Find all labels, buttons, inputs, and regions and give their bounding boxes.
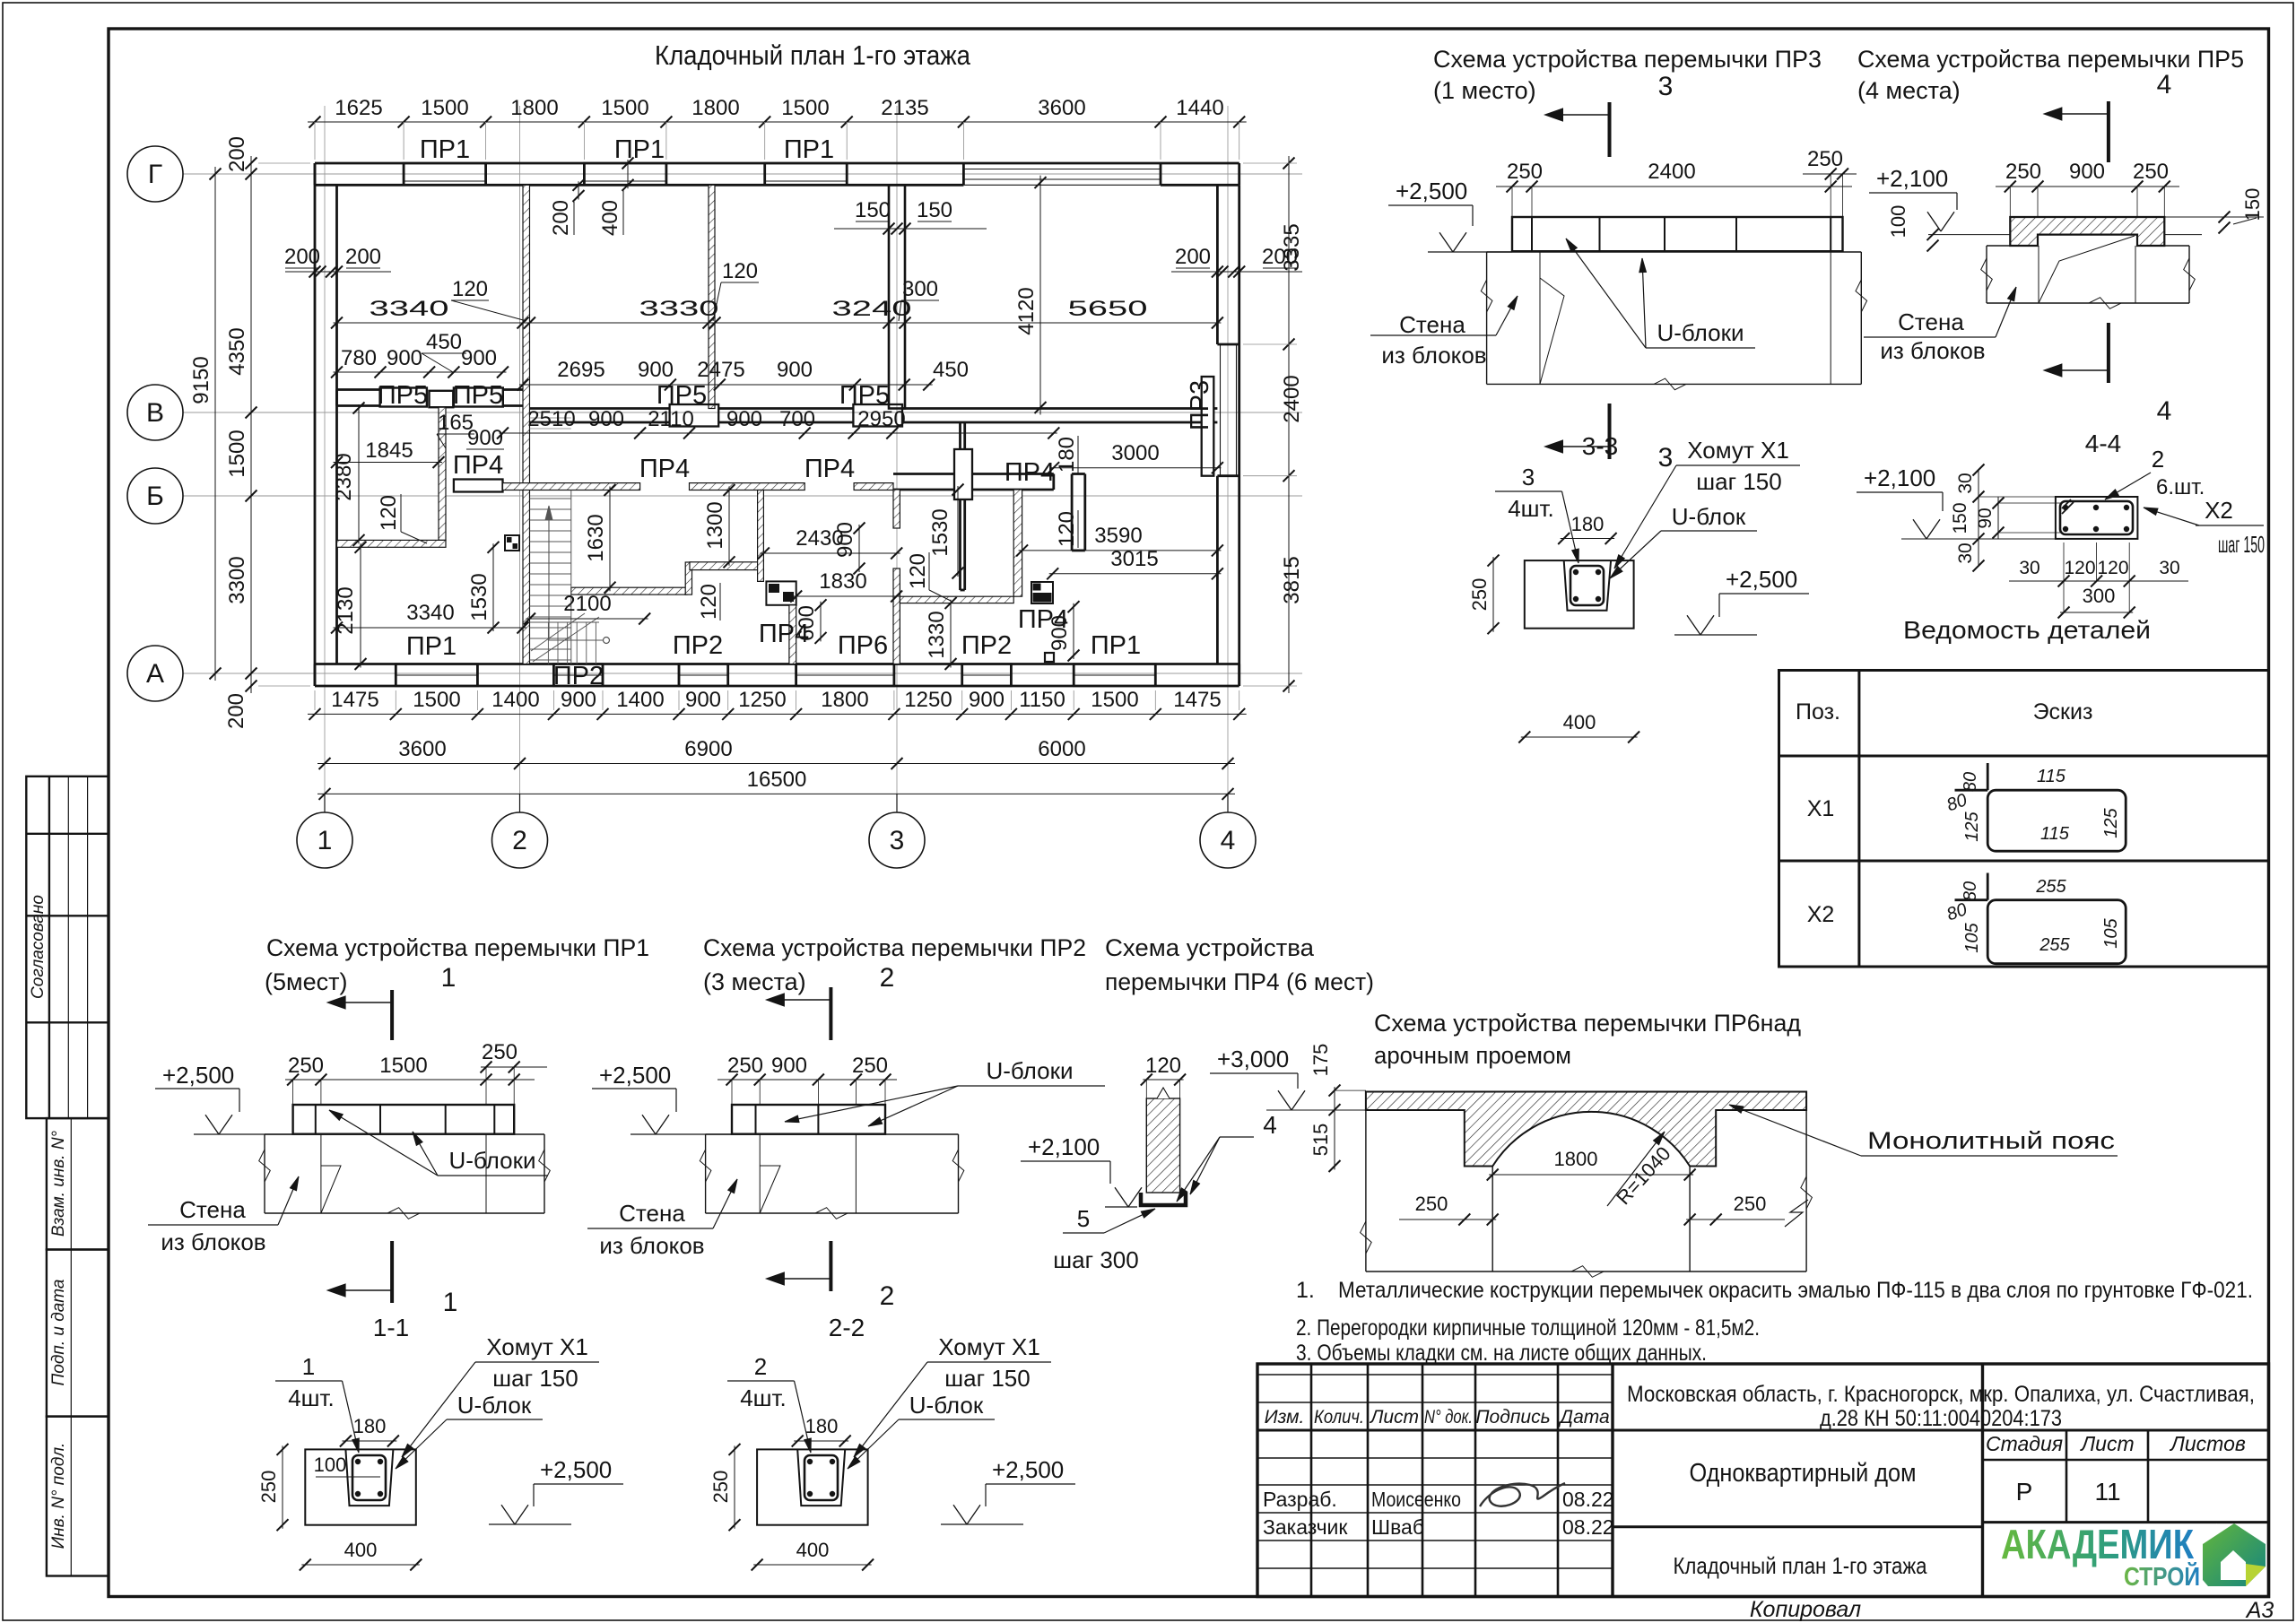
axis circle А (127, 646, 183, 701)
section marker 3 bottom (1545, 404, 1674, 473)
PR1 lintel beam (293, 1105, 515, 1134)
svg-text:Кладочный план 1-го этажа: Кладочный план 1-го этажа (1674, 1552, 1927, 1579)
dim 1830 (790, 569, 902, 603)
partition V5 kitchen right (893, 490, 900, 664)
svg-text:2: 2 (754, 1353, 767, 1380)
svg-text:1150: 1150 (1019, 688, 1065, 712)
V wall right dim chain (517, 358, 970, 391)
svg-text:900: 900 (969, 688, 1004, 712)
svg-text:2110: 2110 (648, 407, 694, 431)
svg-text:ПР5: ПР5 (453, 381, 503, 410)
svg-text:ПР5: ПР5 (378, 381, 428, 410)
svg-text:250: 250 (709, 1471, 732, 1504)
left dim chain total (189, 167, 222, 681)
svg-text:1: 1 (317, 826, 333, 855)
dim 1845 bath (331, 438, 445, 468)
lintel PR5 V-wall 2 (454, 388, 503, 407)
svg-text:100: 100 (314, 1454, 347, 1476)
svg-text:шаг 150: шаг 150 (2218, 531, 2265, 558)
svg-text:3590: 3590 (1094, 524, 1142, 548)
title block stage values (2016, 1478, 2121, 1506)
svg-text:3330: 3330 (639, 297, 719, 321)
svg-text:1800: 1800 (691, 96, 739, 120)
svg-text:1-1: 1-1 (373, 1314, 409, 1341)
title block sheet name (1674, 1552, 1927, 1579)
lintel PR4 bath door (454, 480, 503, 492)
section 1-1 title (373, 1314, 409, 1341)
svg-text:Разраб.: Разраб. (1263, 1488, 1337, 1511)
svg-text:+2,100: +2,100 (1028, 1133, 1100, 1160)
svg-text:120: 120 (697, 584, 721, 620)
svg-text:Схема устройства перемычки ПР2: Схема устройства перемычки ПР2 (703, 934, 1086, 961)
svg-text:U-блок: U-блок (1672, 503, 1746, 530)
PR5 label stena iz blokov (1864, 287, 2016, 364)
svg-text:ПР4: ПР4 (804, 455, 855, 483)
svg-text:900: 900 (387, 346, 422, 370)
svg-text:250: 250 (482, 1040, 517, 1064)
svg-text:150: 150 (855, 198, 891, 222)
dim 4120 vertical (1014, 176, 1047, 415)
window top 3600 (963, 169, 1161, 180)
vedomost headers (1796, 699, 2092, 725)
svg-text:перемычки ПР4 (6 мест): перемычки ПР4 (6 мест) (1105, 968, 1374, 995)
dim 165 900 bath door (437, 411, 504, 450)
svg-text:Подп. и дата: Подп. и дата (49, 1280, 68, 1386)
stair arrow (531, 506, 610, 662)
section 2-2 title (829, 1314, 865, 1341)
svg-text:+2,500: +2,500 (599, 1062, 671, 1089)
svg-text:2400: 2400 (1280, 375, 1304, 422)
svg-text:4шт.: 4шт. (740, 1384, 787, 1411)
svg-text:(4 места): (4 места) (1857, 77, 1961, 104)
dim 120 right partition (1055, 510, 1079, 548)
svg-text:+3,000: +3,000 (1217, 1046, 1289, 1072)
svg-text:X2: X2 (1807, 902, 1835, 927)
corridor dim chain (497, 407, 1059, 439)
section 1-1 figure (305, 1449, 416, 1524)
svg-text:1530: 1530 (467, 573, 491, 621)
svg-text:+2,500: +2,500 (162, 1062, 234, 1089)
stair flight upper (530, 490, 571, 664)
svg-text:115: 115 (2037, 767, 2066, 786)
svg-text:ПР4: ПР4 (1018, 605, 1068, 634)
svg-text:3815: 3815 (1280, 556, 1304, 603)
section 3-3 dims (1468, 513, 1639, 743)
svg-text:4-4: 4-4 (2085, 430, 2121, 457)
svg-text:4: 4 (2157, 396, 2172, 426)
svg-text:120: 120 (2064, 558, 2095, 578)
plan title (655, 39, 971, 71)
dim 3590 right (1016, 524, 1223, 556)
svg-text:180: 180 (1571, 513, 1605, 535)
PR1 label U-bloki (329, 1110, 548, 1176)
PR6 dims 175 515 (1309, 1044, 1366, 1172)
svg-text:1330: 1330 (925, 611, 949, 658)
wall axis V right (530, 409, 1218, 423)
svg-text:2400: 2400 (1648, 160, 1695, 184)
svg-text:250: 250 (727, 1054, 763, 1078)
PR6 walls below (1361, 1110, 1813, 1277)
dim 180 right partition (1055, 436, 1079, 473)
svg-text:U-блок: U-блок (457, 1392, 532, 1419)
dim 1530 right (928, 484, 964, 579)
axis circle Б (127, 468, 183, 524)
svg-text:Стена: Стена (1399, 311, 1465, 338)
svg-text:Эскиз: Эскиз (2033, 699, 2093, 725)
labels PR5 (378, 381, 890, 410)
dim 200 400 window2 (549, 158, 634, 237)
svg-text:1400: 1400 (491, 688, 539, 712)
svg-text:3. Объемы кладки см. на листе: 3. Объемы кладки см. на листе общих данн… (1296, 1341, 1707, 1366)
svg-text:1300: 1300 (703, 501, 727, 549)
svg-text:2: 2 (512, 826, 527, 855)
svg-text:X2: X2 (2205, 497, 2233, 524)
logo house icon (2203, 1523, 2266, 1586)
svg-text:Шваб: Шваб (1371, 1515, 1424, 1539)
svg-text:Лист: Лист (1369, 1407, 1419, 1428)
PR6 dim 250 right (1684, 1193, 1808, 1227)
svg-text:1475: 1475 (331, 688, 378, 712)
dim 2430 (758, 526, 902, 560)
svg-text:Схема устройства перемычки ПР3: Схема устройства перемычки ПР3 (1433, 46, 1822, 73)
svg-text:ПР3: ПР3 (1186, 380, 1214, 430)
window glazing lines bottom (396, 674, 1155, 676)
svg-text:180: 180 (353, 1415, 387, 1437)
svg-text:4шт.: 4шт. (288, 1384, 335, 1411)
section 4-4 labels (2105, 446, 2265, 558)
stamp box Inv N podl (47, 1417, 109, 1576)
lintel PR4 vertical door (954, 449, 972, 499)
svg-text:2-2: 2-2 (829, 1314, 865, 1341)
svg-text:900: 900 (2069, 160, 2105, 184)
svg-text:900: 900 (638, 358, 674, 382)
PR2 lintel beam (732, 1105, 885, 1134)
svg-text:125: 125 (2101, 807, 2121, 838)
wall axis V left (337, 390, 524, 406)
svg-text:1500: 1500 (781, 96, 829, 120)
axis circle 2 (492, 794, 548, 868)
svg-text:255: 255 (2039, 935, 2070, 955)
svg-text:Стена: Стена (179, 1196, 246, 1223)
svg-text:90: 90 (1975, 508, 1996, 528)
svg-text:200: 200 (284, 245, 320, 269)
PR5 dim row (1996, 160, 2179, 217)
svg-text:450: 450 (933, 358, 969, 382)
bottom margin texts (1750, 1597, 2274, 1623)
svg-text:115: 115 (2040, 824, 2070, 844)
svg-text:900: 900 (685, 688, 721, 712)
svg-text:400: 400 (796, 1539, 830, 1561)
svg-text:1500: 1500 (1091, 688, 1138, 712)
vedomost table frame (1779, 671, 2269, 968)
svg-text:Московская область, г. Красног: Московская область, г. Красногорск, мкр.… (1627, 1382, 2255, 1407)
svg-text:250: 250 (1807, 147, 1843, 171)
left wall axis 1 (315, 163, 337, 686)
svg-text:Ведомость деталей: Ведомость деталей (1903, 616, 2151, 644)
svg-text:400: 400 (1563, 711, 1596, 733)
PR4 elevation +2100 (1021, 1133, 1142, 1207)
svg-text:400: 400 (598, 200, 622, 236)
section marker 1 top (327, 963, 456, 1040)
svg-text:+2,100: +2,100 (1864, 464, 1935, 491)
svg-text:Стадия: Стадия (1986, 1432, 2063, 1455)
svg-text:ПР5: ПР5 (657, 381, 707, 410)
svg-text:1250: 1250 (738, 688, 786, 712)
dim 3340 1530 lower left (331, 542, 529, 634)
PR4 label 5 shag 300 (1053, 1205, 1155, 1273)
window glazing lines top (404, 180, 847, 182)
PR1 elevation +2500 (155, 1062, 293, 1134)
pier 450 V-wall (430, 391, 454, 407)
svg-text:780: 780 (341, 346, 377, 370)
svg-text:400: 400 (344, 1539, 378, 1561)
PR3 dim row (1496, 147, 1857, 217)
svg-text:+2,500: +2,500 (992, 1456, 1064, 1483)
svg-text:Заказчик: Заказчик (1263, 1515, 1348, 1539)
svg-text:16500: 16500 (747, 768, 807, 792)
section 3-3 figure (1525, 560, 1634, 629)
svg-text:3000: 3000 (1111, 441, 1159, 465)
svg-text:900: 900 (467, 426, 503, 450)
dim 1300 (703, 484, 735, 568)
svg-text:6.шт.: 6.шт. (2156, 475, 2205, 499)
svg-text:250: 250 (1468, 578, 1491, 612)
dim 150 150 axis3 (834, 198, 987, 235)
lintel PR5 V-wall 3 (670, 404, 719, 427)
svg-text:5650: 5650 (1068, 297, 1148, 321)
left dim chain inner (224, 136, 310, 729)
section marker 3 top (1545, 72, 1674, 157)
title block header texts (1265, 1407, 1610, 1428)
svg-text:1800: 1800 (821, 688, 868, 712)
bathroom partition horizontal (337, 540, 447, 547)
kitchen partition step (571, 490, 764, 595)
svg-text:2135: 2135 (881, 96, 928, 120)
svg-text:1800: 1800 (1554, 1148, 1598, 1170)
PR3 wall block (1481, 251, 1866, 390)
svg-text:200: 200 (1175, 245, 1211, 269)
svg-text:Хомут X1: Хомут X1 (938, 1333, 1040, 1360)
svg-text:Взам. инв. N°: Взам. инв. N° (49, 1130, 68, 1237)
svg-text:255: 255 (2035, 877, 2066, 897)
bottom axis chain (317, 737, 1235, 769)
section 4-4 left dims (1950, 464, 2060, 572)
svg-text:Хомут X1: Хомут X1 (1687, 437, 1789, 464)
wall 300 axis3 (889, 185, 905, 408)
door jamb block kitchen (766, 581, 796, 604)
dim 200 200 top right (1171, 245, 1302, 278)
svg-text:3340: 3340 (370, 297, 449, 321)
svg-text:из блоков: из блоков (1880, 337, 1985, 364)
svg-text:175: 175 (1309, 1044, 1332, 1077)
interior dim row rooms top (331, 297, 1223, 329)
svg-text:2950: 2950 (857, 407, 905, 431)
partition right rooms divider (1072, 474, 1085, 551)
lintel PR5 V-wall 4 (853, 404, 902, 427)
svg-text:+2,100: +2,100 (1876, 165, 1948, 192)
svg-text:08.22: 08.22 (1562, 1515, 1614, 1539)
svg-text:1500: 1500 (225, 430, 249, 477)
svg-text:шаг 150: шаг 150 (1696, 468, 1781, 495)
partition axis2 top (709, 185, 715, 408)
window lintel PR1 top 1 (404, 163, 485, 185)
svg-text:120: 120 (722, 259, 758, 283)
svg-text:1625: 1625 (335, 96, 382, 120)
svg-text:(3 места): (3 места) (703, 968, 806, 995)
svg-text:30: 30 (1955, 542, 1976, 563)
PR6 elevation +3000 (1210, 1046, 1366, 1110)
svg-text:1830: 1830 (819, 569, 866, 594)
svg-text:4120: 4120 (1014, 287, 1039, 334)
lintel PR5 V-wall 1 (380, 388, 427, 407)
svg-text:2: 2 (880, 963, 895, 993)
svg-text:шаг 150: шаг 150 (492, 1365, 578, 1392)
svg-text:1250: 1250 (904, 688, 952, 712)
PR2 dim row (717, 1054, 897, 1105)
right wall axis 4 (1217, 185, 1239, 686)
svg-text:Металлические кострукции перем: Металлические кострукции перемычек окрас… (1338, 1278, 2253, 1303)
svg-text:120: 120 (1055, 511, 1079, 547)
svg-text:Лист: Лист (2079, 1432, 2134, 1455)
svg-text:ПР4: ПР4 (759, 620, 809, 648)
signature squiggle (1480, 1483, 1565, 1506)
scheme PR3 title (1433, 46, 1822, 104)
section 3-3 title (1582, 432, 1618, 460)
axis circle Г (127, 146, 183, 202)
svg-text:Колич.: Колич. (1314, 1407, 1364, 1428)
svg-text:А3: А3 (2245, 1598, 2274, 1623)
svg-text:ПР4: ПР4 (1004, 458, 1055, 487)
notes text (1296, 1278, 2253, 1366)
svg-text:6900: 6900 (684, 737, 732, 761)
right dim chain (1243, 156, 1304, 693)
scheme PR4 title (1105, 934, 1374, 995)
svg-text:шаг 300: шаг 300 (1053, 1246, 1138, 1273)
dim 2130 left (334, 542, 367, 670)
top wall axis G (315, 163, 1239, 185)
vedomost title (1903, 616, 2151, 644)
dim 120 callout 2 (713, 259, 759, 321)
svg-text:900: 900 (726, 407, 762, 431)
door jamb right room (1031, 582, 1053, 603)
lintel PR3 vertical rect (1186, 377, 1214, 476)
grid axis lines (183, 106, 1302, 812)
title block object name (1690, 1459, 1917, 1488)
svg-text:200: 200 (345, 245, 381, 269)
window lintel PR1 top 2 (584, 163, 666, 185)
section 2-2 figure (757, 1449, 868, 1524)
svg-text:В: В (146, 398, 164, 428)
svg-text:515: 515 (1309, 1124, 1332, 1157)
svg-text:250: 250 (1507, 160, 1543, 184)
svg-text:Стена: Стена (1898, 308, 1964, 335)
svg-text:1.: 1. (1296, 1278, 1315, 1303)
svg-text:U-блоки: U-блоки (987, 1057, 1074, 1084)
window lintel PR1 top 3 (765, 163, 848, 185)
svg-text:Кладочный план 1-го этажа: Кладочный план 1-го этажа (655, 39, 971, 71)
svg-text:Схема устройства: Схема устройства (1105, 934, 1315, 961)
partition P1 right room (1013, 490, 1022, 596)
svg-text:2. Перегородки кирпичные толщи: 2. Перегородки кирпичные толщиной 120мм … (1296, 1315, 1760, 1341)
svg-text:3: 3 (1658, 443, 1674, 473)
scheme PR2 title (703, 934, 1086, 995)
svg-text:2510: 2510 (527, 407, 575, 431)
svg-text:105: 105 (1962, 922, 1982, 952)
dim 2380 bath (332, 403, 365, 546)
svg-text:Изм.: Изм. (1265, 1407, 1305, 1428)
scheme PR5 title (1857, 46, 2244, 104)
vedomost row X2 (1807, 873, 2126, 964)
svg-text:11: 11 (2094, 1478, 2120, 1506)
svg-text:450: 450 (426, 330, 462, 354)
stamp table Soglasovano (26, 777, 109, 1118)
svg-text:180: 180 (805, 1415, 839, 1437)
svg-text:1: 1 (443, 1288, 458, 1317)
dim 600 stub (795, 599, 827, 644)
PR1 label stena iz blokov (148, 1176, 299, 1255)
svg-text:250: 250 (257, 1471, 280, 1504)
section 1-1 labels (275, 1333, 623, 1524)
svg-text:СТРОЙ: СТРОЙ (2124, 1561, 2200, 1592)
svg-text:2695: 2695 (557, 358, 604, 382)
scheme PR6 title (1374, 1010, 1801, 1069)
svg-text:1630: 1630 (584, 514, 608, 561)
svg-text:1500: 1500 (413, 688, 460, 712)
svg-text:Схема устройства перемычки ПР1: Схема устройства перемычки ПР1 (266, 934, 649, 961)
svg-text:д.28 КН 50:11:0040204:173: д.28 КН 50:11:0040204:173 (1820, 1406, 2062, 1431)
svg-text:Моисеенко: Моисеенко (1371, 1488, 1461, 1511)
PR5 elevation +2100 (1869, 165, 2010, 252)
svg-text:900: 900 (771, 1054, 807, 1078)
title block frame (1257, 1364, 2269, 1597)
svg-text:3015: 3015 (1110, 547, 1158, 571)
labels bottom windows (406, 605, 1141, 690)
stair flight lower (530, 622, 600, 664)
svg-text:5: 5 (1077, 1205, 1090, 1232)
section 4-4 title (2085, 430, 2121, 457)
svg-text:150: 150 (2241, 188, 2264, 221)
svg-text:900: 900 (561, 688, 596, 712)
title block rows texts (1263, 1488, 1614, 1539)
svg-text:3600: 3600 (1038, 96, 1085, 120)
dim 200 200 top left (284, 245, 391, 278)
bottom wall axis A (315, 664, 1239, 687)
svg-text:1: 1 (441, 963, 457, 993)
svg-text:3240: 3240 (832, 297, 912, 321)
PR5 dim 150 right (2164, 188, 2264, 235)
svg-text:ПР1: ПР1 (784, 135, 834, 164)
stamp box Vzam inv (47, 1118, 109, 1249)
svg-text:900: 900 (588, 407, 624, 431)
svg-text:(5мест): (5мест) (265, 968, 347, 995)
right wall window PR3 (1221, 344, 1237, 476)
svg-text:250: 250 (2133, 160, 2169, 184)
bathroom partition vertical (439, 407, 446, 540)
svg-text:ПР2: ПР2 (673, 631, 723, 660)
stamp box Podp i data (47, 1250, 109, 1417)
PR6 dim 1800 (1487, 1148, 1696, 1181)
vedomost row X1 (1807, 763, 2126, 851)
svg-text:120: 120 (1145, 1054, 1181, 1078)
dim 120 callout 1 (451, 277, 526, 321)
svg-text:105: 105 (2101, 917, 2121, 948)
svg-text:3-3: 3-3 (1582, 432, 1618, 460)
PR3 elevation +2500 (1388, 178, 1512, 252)
top dimension chain (308, 96, 1247, 160)
svg-text:U-блок: U-блок (909, 1392, 984, 1419)
axis circle В (127, 385, 183, 440)
bottom window lintels (396, 664, 1155, 687)
